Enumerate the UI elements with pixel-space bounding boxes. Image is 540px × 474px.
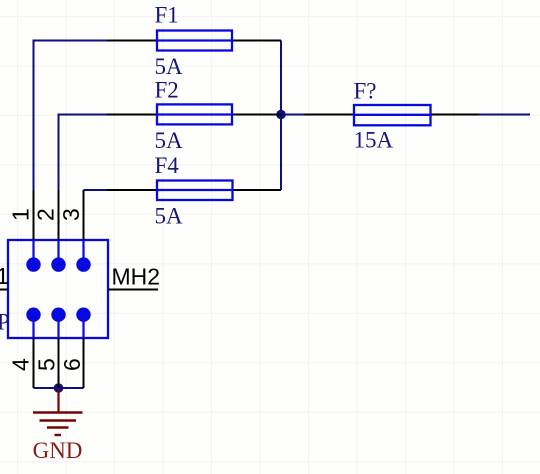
connector pin 3 lead xyxy=(83,190,85,240)
wire net1 left vertical from F1 to pin 1 xyxy=(34,41,108,191)
svg-text:P: P xyxy=(0,310,10,335)
svg-text:5A: 5A xyxy=(155,204,184,229)
connector pin 1 stub xyxy=(32,240,34,265)
connector pin MH2 lead right xyxy=(108,289,158,291)
connector pin 4 lead xyxy=(33,338,35,388)
svg-text:5A: 5A xyxy=(155,128,184,153)
svg-text:MH1: MH1 xyxy=(0,263,9,289)
connector pin 3 stub xyxy=(82,240,84,265)
svg-text:2: 2 xyxy=(33,208,59,221)
svg-text:F1: F1 xyxy=(155,3,179,28)
connector pad 2 xyxy=(51,257,65,271)
svg-text:F4: F4 xyxy=(155,153,180,178)
svg-text:F?: F? xyxy=(354,79,377,104)
fuse F4 pins xyxy=(107,189,281,191)
connector pad 6 xyxy=(76,308,90,322)
connector pin 1 lead xyxy=(33,190,35,240)
connector pin 2 lead xyxy=(58,190,60,240)
svg-text:MH2: MH2 xyxy=(112,264,161,290)
connector pin 6 lead xyxy=(83,338,85,388)
wire net3 from F4 to pin 3 xyxy=(84,189,108,191)
ground bar 2 xyxy=(40,419,77,421)
connector P body xyxy=(8,240,108,338)
wire from junction to F? xyxy=(281,114,305,116)
connector pin 5 stub xyxy=(57,315,59,338)
fuse F? body xyxy=(354,105,431,125)
ground stem xyxy=(57,388,59,413)
fuse F4 body xyxy=(157,181,233,201)
fuse F1 body xyxy=(157,31,232,51)
ground bar 1 xyxy=(33,411,83,413)
svg-text:5A: 5A xyxy=(155,54,184,79)
svg-text:4: 4 xyxy=(8,358,34,371)
connector pad 1 xyxy=(26,257,40,271)
connector pin MH1 lead left xyxy=(0,289,8,291)
fuse F? pins xyxy=(305,114,480,116)
connector pin 5 lead xyxy=(58,338,60,388)
svg-text:15A: 15A xyxy=(354,128,394,153)
svg-text:3: 3 xyxy=(58,208,84,221)
connector pin 4 stub xyxy=(32,315,34,338)
ground bar 3 xyxy=(47,426,69,428)
connector pad 4 xyxy=(26,308,40,322)
wire net2 left vertical from F2 to pin 2 xyxy=(59,115,108,191)
connector pin 6 stub xyxy=(82,315,84,338)
connector pad 5 xyxy=(51,308,65,322)
svg-text:1: 1 xyxy=(8,208,34,221)
wire bottom joining pins 4 5 6 xyxy=(34,387,84,389)
svg-text:GND: GND xyxy=(33,438,83,463)
fuse F1 pins xyxy=(107,40,281,42)
svg-text:5: 5 xyxy=(34,358,60,371)
node junction at ground net xyxy=(54,383,64,393)
connector pad 3 xyxy=(76,257,90,271)
ground bar 4 xyxy=(55,434,62,436)
wire right bus vertical joining fuse outputs xyxy=(280,41,282,191)
node junction at fuse bus xyxy=(276,110,286,120)
connector pin 2 stub xyxy=(57,240,59,265)
fuse F2 body xyxy=(157,104,232,124)
wire output of F? to right edge xyxy=(479,114,530,116)
fuse F2 pins xyxy=(107,114,281,116)
svg-text:F2: F2 xyxy=(155,78,179,103)
svg-text:6: 6 xyxy=(59,358,85,371)
